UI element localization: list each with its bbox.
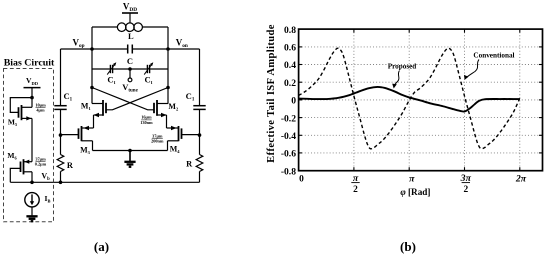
svg-text:Conventional: Conventional (473, 52, 514, 60)
svg-text:Bias Circuit: Bias Circuit (4, 58, 55, 69)
svg-text:π: π (409, 173, 415, 184)
svg-text:Effective Tail ISF Amplitude: Effective Tail ISF Amplitude (266, 24, 277, 163)
svg-text:0: 0 (291, 96, 296, 107)
svg-text:0: 0 (299, 174, 304, 184)
svg-text:(a): (a) (94, 239, 109, 254)
svg-text:-0.6: -0.6 (281, 149, 296, 160)
svg-text:2: 2 (353, 185, 358, 195)
svg-text:0.6: 0.6 (284, 43, 296, 54)
svg-text:2: 2 (463, 185, 468, 195)
svg-text:0.4: 0.4 (284, 60, 296, 71)
svg-text:0.8: 0.8 (284, 25, 296, 36)
svg-text:φ [Rad]: φ [Rad] (400, 187, 430, 197)
svg-text:(b): (b) (400, 239, 416, 254)
svg-text:0.2μm: 0.2μm (35, 162, 47, 167)
svg-text:-0.4: -0.4 (281, 131, 296, 142)
svg-text:C: C (127, 56, 133, 66)
svg-text:-0.8: -0.8 (281, 166, 296, 177)
svg-text:Proposed: Proposed (388, 63, 417, 71)
svg-text:2π: 2π (515, 173, 527, 184)
svg-text:R: R (67, 161, 74, 170)
svg-text:L: L (128, 31, 134, 41)
svg-text:130nm: 130nm (140, 120, 153, 125)
svg-text:200nm: 200nm (151, 139, 164, 144)
svg-text:-0.2: -0.2 (281, 113, 296, 124)
svg-text:4μm: 4μm (36, 108, 45, 113)
svg-text:R: R (186, 159, 193, 168)
svg-text:0.2: 0.2 (284, 78, 296, 89)
